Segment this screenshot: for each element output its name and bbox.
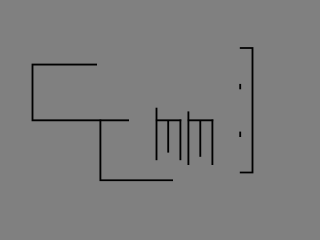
wire: vertical drop from node at (100.4,120.3) to bottom run	[100, 119, 173, 180]
battery B1: right bracket outline	[240, 48, 253, 173]
component L2 (right comb): middle tooth	[199, 120, 201, 157]
component L1 (left comb): tall left lead	[156, 108, 158, 161]
component L2 (right comb): right tooth	[211, 119, 213, 165]
component L1 (left comb): middle tooth	[167, 120, 169, 152]
battery B1: upper terminal tick	[239, 84, 241, 89]
component L1 (left comb): right tooth	[179, 119, 181, 160]
component L1 (left comb): top bar	[156, 119, 182, 121]
battery B1: lower terminal tick	[239, 132, 241, 137]
component L2 (right comb): tall left lead	[187, 111, 189, 165]
wire: top-left loop (top, left and bottom runs)	[33, 65, 130, 121]
component L2 (right comb): top bar	[187, 119, 213, 121]
